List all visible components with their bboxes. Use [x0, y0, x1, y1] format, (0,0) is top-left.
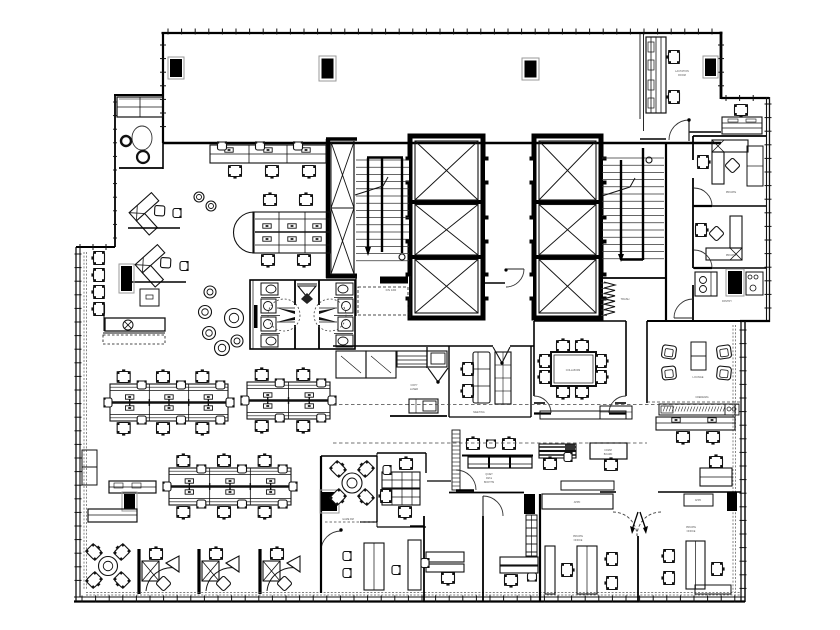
- media table (racetrack): [234, 212, 331, 253]
- label copy: [410, 384, 418, 391]
- svg-text:COLLAB RM: COLLAB RM: [566, 369, 580, 372]
- svg-text:LOUNGE: LOUNGE: [693, 375, 704, 379]
- lounge armchair: [661, 345, 677, 360]
- west wing north wall: [114, 94, 163, 96]
- guest chair (private office 2): [695, 223, 708, 237]
- riser hatch strip: [452, 430, 460, 490]
- chair: [604, 552, 617, 566]
- lactation room south wall: [640, 132, 721, 139]
- bench desk row (north): [210, 141, 326, 178]
- stair A rails: [355, 158, 405, 261]
- print station black unit: [122, 492, 137, 511]
- credenza (mid right): [600, 406, 632, 419]
- workstation 1 (west wing): [129, 192, 172, 235]
- lounge dashed edge + credenza: [647, 402, 741, 415]
- office wall: [410, 481, 503, 601]
- svg-text:APPD: APPD: [695, 499, 702, 502]
- stair A treads: [354, 141, 409, 276]
- pantry appliance: [746, 272, 763, 295]
- lounge west wall: [646, 321, 648, 403]
- cafe stool: [204, 286, 216, 298]
- restroom door leaves (left): [277, 308, 295, 322]
- svg-text:COPY: COPY: [410, 384, 417, 387]
- chair: [706, 431, 720, 444]
- svg-text:PANTRY: PANTRY: [722, 300, 732, 303]
- svg-text:RM &: RM &: [486, 477, 492, 480]
- exterior wall: step at left: [76, 244, 115, 250]
- svg-text:OFFICE: OFFICE: [687, 530, 696, 533]
- print counter: [109, 481, 156, 493]
- lounge coffee table: [691, 342, 706, 370]
- corridor bench: [468, 456, 532, 468]
- quiet room south wall: [449, 492, 524, 494]
- office B desks: [686, 541, 731, 594]
- library shelf desk 2: [408, 540, 421, 590]
- chair: [543, 456, 557, 469]
- desk (right wing): [700, 468, 732, 486]
- svg-text:TRASH: TRASH: [621, 297, 630, 301]
- meeting room chairs: [460, 362, 473, 398]
- small room walls (game room): [321, 456, 377, 529]
- exterior west wall (double with mullion ticks): [75, 247, 87, 601]
- pantry tall cabinet: [726, 269, 744, 296]
- svg-text:PRIVATE: PRIVATE: [726, 254, 737, 257]
- chair: [561, 563, 574, 577]
- elevator cab A1: [415, 141, 478, 200]
- toilet (west wing): [132, 126, 152, 163]
- elev lobby room below stair A: [356, 276, 410, 318]
- sink (west wing, dark): [121, 136, 131, 146]
- column (terrace): [522, 58, 539, 80]
- chair: [604, 576, 617, 590]
- terrace bottom wall / north wall of office: [163, 142, 721, 145]
- svg-text:PRIVATE: PRIVATE: [726, 191, 737, 194]
- elevator cab A2: [415, 205, 478, 256]
- restroom wall black bar: [254, 305, 258, 328]
- black door jamb: [727, 492, 737, 511]
- exterior: terrace top wall: [162, 29, 723, 35]
- label private office A: [573, 535, 583, 542]
- louver / compactor zigzag below stair B: [601, 282, 630, 315]
- bench cluster row1 left: [103, 369, 234, 435]
- door arc (lactation corridor): [669, 118, 691, 141]
- work room shelf: [390, 415, 447, 417]
- huddle desks: [378, 456, 420, 519]
- chair: [676, 431, 690, 444]
- chair: [564, 452, 573, 462]
- office wall: [482, 516, 484, 601]
- lounge north wall: [647, 320, 741, 322]
- corridor door between cores: [483, 268, 524, 287]
- label lactation: [675, 70, 689, 77]
- exterior east wall upper (double with mullion ticks): [765, 97, 772, 322]
- guest chair (private office 1): [697, 155, 710, 169]
- svg-text:OFFICE: OFFICE: [574, 539, 583, 542]
- svg-text:GAME RM: GAME RM: [342, 518, 353, 521]
- svg-text:QUIET: QUIET: [485, 473, 493, 476]
- corridor desk: [539, 444, 576, 458]
- elevator cab B3: [539, 260, 596, 314]
- media table chairs: [261, 192, 313, 267]
- lounge armchair: [661, 366, 676, 380]
- library shelf desk: [364, 543, 384, 590]
- waiting chairs (west wall): [91, 251, 104, 316]
- label quiet: [484, 473, 495, 484]
- column (top right room): [703, 56, 718, 78]
- chair (lactation room): [666, 50, 679, 64]
- cafe stool: [194, 192, 204, 202]
- restroom sign bowtie: [297, 283, 317, 304]
- cubicle partition 1: [137, 549, 140, 594]
- cubicle workstation 1: [142, 546, 179, 591]
- restroom turning circles: [268, 299, 346, 331]
- svg-text:ROOM: ROOM: [678, 74, 686, 77]
- chair: [661, 571, 674, 585]
- cafe table: [215, 341, 230, 356]
- black cabinet (west wall): [119, 264, 134, 293]
- cafe stool: [199, 306, 212, 319]
- column (terrace): [319, 56, 336, 81]
- svg-text:PRIVATE: PRIVATE: [573, 535, 583, 538]
- meeting room walls: [333, 346, 534, 417]
- svg-text:COMM: COMM: [604, 449, 612, 452]
- lounge armchair: [716, 366, 731, 380]
- restroom door leaves (right): [319, 308, 337, 322]
- cafe table: [225, 309, 244, 328]
- four-top table (game room): [329, 459, 375, 508]
- elevator door gaps B: [530, 157, 607, 301]
- black cabinet (game room): [320, 490, 339, 513]
- double door (private offices): [613, 512, 661, 536]
- exterior wall: step at top right: [721, 95, 769, 101]
- west wing counter line: [119, 167, 163, 169]
- shaft (north, west of stair A): [326, 139, 357, 278]
- label private office B: [686, 526, 696, 533]
- shelf under ws2: [128, 281, 186, 283]
- restroom block walls: [250, 280, 355, 349]
- chair: [711, 562, 724, 576]
- chair: [421, 558, 430, 568]
- work room counter (north): [397, 351, 447, 367]
- svg-text:BOARD: BOARD: [604, 453, 613, 456]
- library wall: [320, 529, 322, 593]
- quiet room door: [456, 470, 476, 491]
- wall between terrace and lactation room: [640, 33, 644, 131]
- workstation (private office 2): [706, 216, 742, 260]
- work room north wall: [426, 347, 428, 368]
- chair: [392, 565, 401, 575]
- west wing west wall: [113, 95, 117, 247]
- private office 1 walls: [693, 205, 766, 207]
- corridor dashed guideline: [333, 442, 647, 444]
- restroom fixtures (left room): [261, 283, 280, 347]
- west wall cabinet: [82, 450, 97, 485]
- corridor guest chairs: [466, 436, 516, 449]
- quiet room north wall: [462, 455, 533, 457]
- shelf ladder: [526, 515, 537, 556]
- conference room walls: [534, 321, 626, 403]
- cubicle partition 3: [258, 549, 261, 594]
- closet (private office 1): [747, 146, 763, 186]
- four-top table (bottom left): [85, 542, 131, 591]
- svg-text:APPD: APPD: [574, 501, 581, 504]
- office 1 door: [694, 188, 712, 206]
- print counter lower: [88, 509, 137, 522]
- elevator cab B1: [539, 141, 596, 200]
- elevator core B outer walls: [532, 136, 603, 318]
- chair: [661, 549, 674, 563]
- workstation (private office 1): [712, 140, 748, 184]
- cafe stool: [231, 335, 243, 347]
- stair B rails: [602, 148, 652, 262]
- community board: [590, 443, 627, 459]
- stair B east wall: [665, 143, 667, 321]
- equipment racks (lactation room): [646, 37, 666, 113]
- meeting room table: [495, 352, 511, 404]
- storage box right: [684, 494, 713, 506]
- elevator core A outer walls: [408, 136, 485, 318]
- svg-text:LASER: LASER: [410, 388, 418, 391]
- restroom fixtures (right room): [334, 283, 353, 347]
- restroom corridor walls: [295, 280, 319, 349]
- cubicle partition 2: [197, 549, 200, 594]
- exterior south wall (double with mullion ticks): [74, 596, 745, 603]
- west wing closet: [117, 97, 163, 117]
- meeting room couch: [473, 352, 490, 403]
- side chair ws1: [173, 208, 182, 218]
- svg-text:DN 16R: DN 16R: [386, 288, 398, 292]
- shelf under ws1: [128, 227, 180, 229]
- vestibule wall: [693, 135, 766, 137]
- bench cluster row2: [162, 453, 297, 519]
- private office 2 walls: [693, 267, 766, 269]
- stair B bottom wall: [601, 277, 666, 279]
- workstation 2 (west wing): [135, 244, 178, 287]
- reception counter: [103, 303, 165, 344]
- desk row (right wing open area): [656, 417, 735, 430]
- copy room door leaf (V): [428, 368, 448, 384]
- svg-text:PRIVATE: PRIVATE: [686, 526, 696, 529]
- conference room doors: [534, 396, 626, 414]
- chair: [709, 454, 723, 467]
- chair: [504, 574, 518, 587]
- exterior wall: step right middle: [740, 320, 770, 322]
- side chair ws2: [180, 261, 189, 271]
- black door block: [524, 494, 535, 514]
- stair B treads: [602, 158, 664, 259]
- elevator cab B2: [539, 205, 596, 256]
- chair: [441, 572, 455, 585]
- exterior east wall lower (double with mullion ticks): [733, 321, 747, 602]
- credenza below conference: [540, 411, 626, 419]
- offices west wall (right wing): [692, 136, 694, 321]
- conference chairs: [537, 338, 608, 399]
- office front dashed line: [86, 592, 740, 594]
- exterior: terrace west wall: [160, 32, 166, 169]
- svg-text:MEETING: MEETING: [473, 411, 484, 414]
- pantry counter: [695, 272, 717, 296]
- chair: [527, 573, 537, 582]
- office wall: [600, 492, 741, 601]
- svg-text:BOOTHS: BOOTHS: [484, 481, 495, 484]
- cafe stool: [206, 201, 216, 211]
- office desk: [426, 552, 464, 572]
- storage boxes (appd): [542, 481, 614, 509]
- chair: [604, 457, 618, 470]
- elevator cab A3: [415, 260, 478, 314]
- office A standing desks: [545, 546, 597, 594]
- chair (lactation room): [666, 90, 679, 104]
- printer desk: [409, 399, 438, 413]
- pantry door arc: [674, 299, 693, 318]
- corridor dashed guideline: [333, 404, 741, 406]
- corridor door to right wing: [0, 0, 1, 1]
- work room cabinets: [336, 351, 396, 378]
- svg-text:CREDENZA: CREDENZA: [695, 396, 709, 399]
- credenza (vestibule): [722, 117, 762, 134]
- office desk bank: [500, 557, 538, 573]
- cubicle workstation 2: [202, 546, 239, 591]
- cafe stool: [203, 327, 216, 340]
- conference table: [551, 352, 596, 386]
- lounge armchair: [716, 345, 732, 360]
- exterior: terrace east wall upper: [718, 32, 724, 99]
- chair (vestibule): [734, 104, 748, 117]
- bench cluster row1 right: [240, 367, 336, 433]
- cubicle workstation 3: [263, 546, 300, 591]
- column (terrace): [168, 57, 184, 79]
- small table below ws2: [140, 289, 159, 306]
- library chairs: [343, 551, 352, 578]
- office 2 door: [694, 250, 712, 268]
- elevator door gaps A: [406, 157, 489, 301]
- wall (center): [539, 494, 541, 601]
- huddle room walls: [377, 453, 426, 527]
- meeting room door leaf (V): [493, 347, 510, 365]
- svg-text:LACTATION: LACTATION: [675, 70, 689, 73]
- game room door: [321, 522, 376, 551]
